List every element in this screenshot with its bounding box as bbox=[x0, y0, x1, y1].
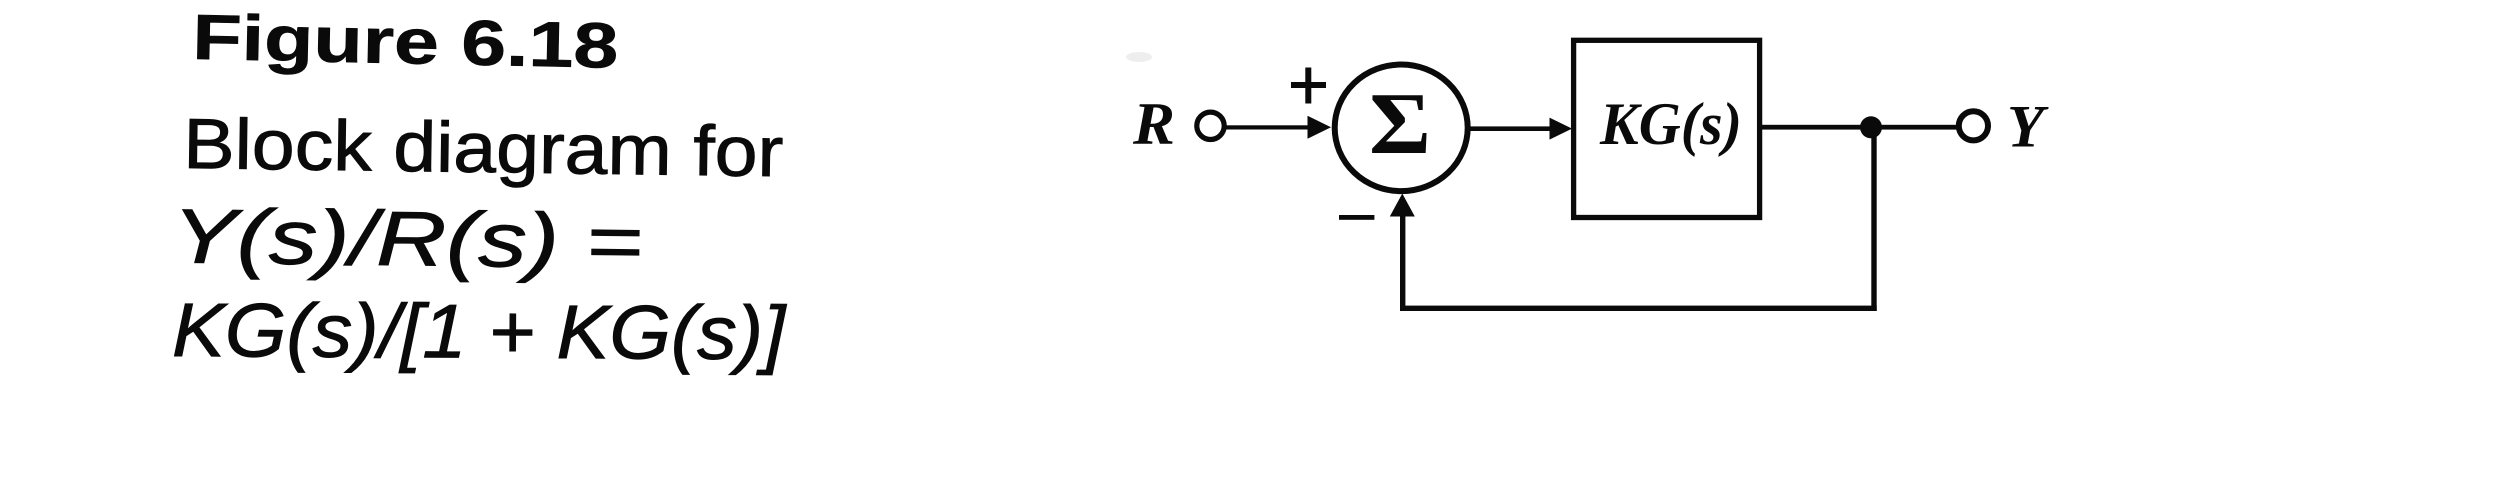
svg-text:Y: Y bbox=[2007, 93, 2049, 159]
svg-text:KG(s): KG(s) bbox=[1599, 91, 1742, 157]
arrowhead up into summing junction bbox=[1390, 194, 1415, 217]
input terminal circle R bbox=[1197, 112, 1224, 139]
svg-text:R: R bbox=[1132, 91, 1175, 157]
arrowhead into block bbox=[1550, 118, 1573, 140]
svg-text:Σ: Σ bbox=[1369, 76, 1431, 173]
scan smudge bbox=[1126, 52, 1152, 62]
summing junction circle bbox=[1335, 65, 1468, 192]
wire summing junction to block bbox=[1469, 126, 1553, 131]
plus sign bbox=[1291, 68, 1326, 104]
wire R to summing junction bbox=[1224, 125, 1312, 129]
output terminal circle Y bbox=[1959, 111, 1988, 140]
wire block to output terminal bbox=[1762, 125, 1958, 130]
svg-text:KG(s)/[1 + KG(s)]: KG(s)/[1 + KG(s)] bbox=[172, 288, 787, 376]
node junction dot bbox=[1860, 116, 1882, 138]
svg-text:Y(s)/R(s) =: Y(s)/R(s) = bbox=[172, 193, 643, 285]
arrowhead into summing junction bbox=[1308, 116, 1332, 139]
feedback wire: down from node bbox=[1871, 132, 1876, 311]
svg-text:Figure 6.18: Figure 6.18 bbox=[192, 1, 619, 82]
block KG(s) bbox=[1574, 40, 1760, 217]
feedback wire: up to summing junction bbox=[1400, 214, 1405, 308]
minus sign bbox=[1339, 215, 1374, 220]
feedback wire: bottom horizontal bbox=[1400, 306, 1877, 311]
svg-text:Block diagram for: Block diagram for bbox=[183, 105, 784, 192]
